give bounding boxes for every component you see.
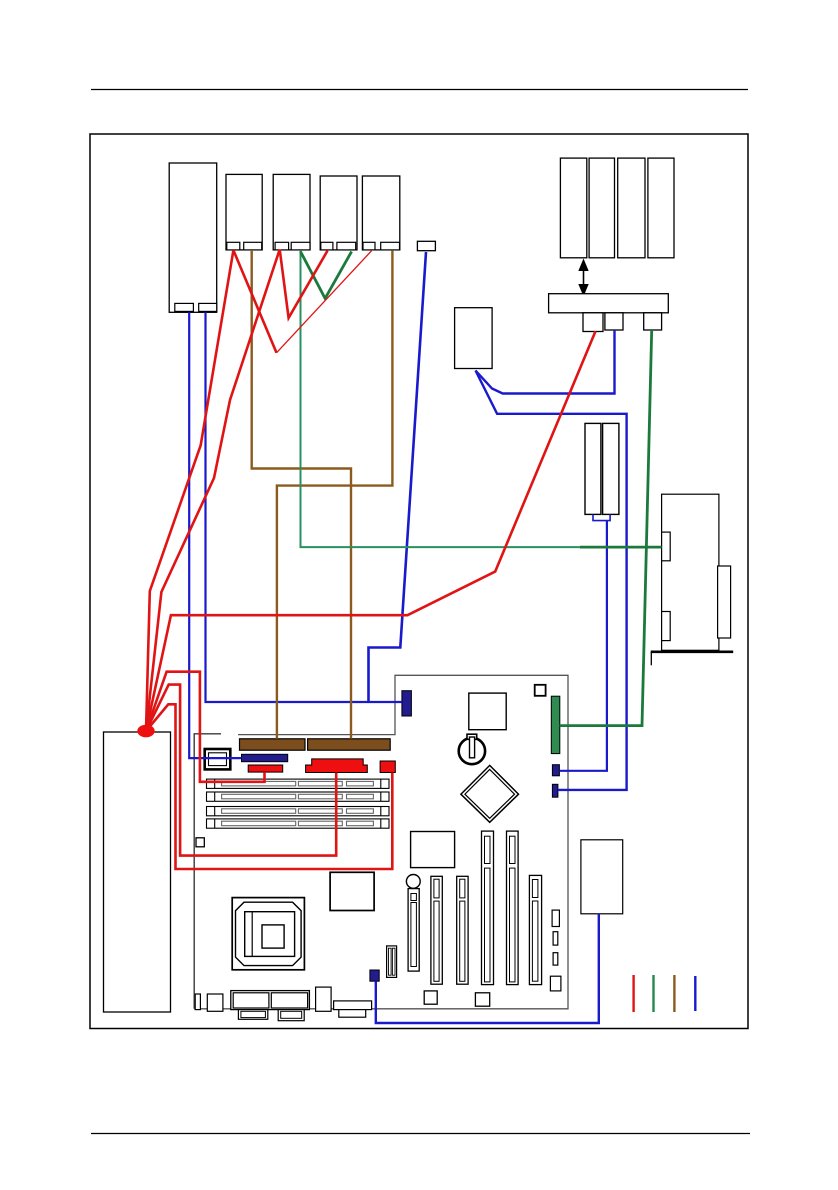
bottom rule	[91, 1133, 750, 1135]
PCI slot F	[529, 875, 541, 984]
wire brown 2	[277, 251, 393, 739]
wire blue B6	[476, 371, 627, 790]
double arrow	[583, 267, 585, 289]
wire blue B2	[206, 312, 402, 702]
bar connector 1	[583, 313, 603, 332]
wire blue B1	[189, 312, 241, 758]
wire red R3	[146, 249, 280, 731]
drive bay 3	[618, 158, 645, 258]
thin slot L	[585, 423, 601, 514]
small square top right of board	[535, 685, 546, 696]
PCI slot A	[408, 889, 419, 972]
small circle left of slots	[406, 875, 420, 889]
bar connector 3	[644, 313, 662, 330]
bar connector 2	[605, 313, 623, 330]
motherboard outline	[194, 734, 221, 1009]
wire red R7	[146, 685, 336, 856]
DIMM slot 1	[207, 779, 390, 788]
serial double box on board	[205, 749, 231, 769]
drive bay 2	[589, 158, 614, 258]
chipset square A	[330, 872, 374, 910]
thin slot R	[603, 423, 619, 514]
navy square bottom	[370, 970, 379, 981]
legend blue	[694, 976, 696, 1011]
drive box 4	[320, 176, 357, 250]
drive bay 4	[648, 158, 674, 258]
power supply unit box	[104, 732, 171, 1012]
wire blue B4	[560, 521, 607, 771]
bottom mounting squares	[424, 991, 437, 1004]
wire blue B5	[476, 330, 615, 394]
top rule	[91, 89, 748, 91]
CPU socket	[232, 898, 304, 970]
drive box 3	[273, 174, 310, 250]
side case box right	[662, 494, 719, 650]
legend brown	[673, 975, 675, 1012]
wire red R1	[146, 250, 233, 731]
wire dark green from bar connector 3	[560, 330, 652, 726]
back panel connector 2	[207, 994, 223, 1011]
blue bracket connector below thin slots	[593, 514, 610, 520]
navy power connector	[402, 691, 412, 716]
lower right white box	[581, 840, 623, 914]
back panel block	[231, 991, 310, 1010]
wire blue B3	[369, 252, 427, 702]
drive box 1 connector L	[175, 303, 194, 311]
navy connector 2 right	[552, 784, 558, 797]
navy connector 1 right	[552, 765, 559, 776]
small red connector	[248, 765, 283, 772]
DIMM slot 2	[207, 792, 390, 801]
wire red R2 thick arm	[233, 250, 276, 353]
drive box 1 (tall)	[169, 163, 217, 312]
big red power connector	[306, 759, 368, 773]
chipset square B	[411, 832, 455, 868]
right edge small rects	[552, 910, 559, 926]
legend green	[652, 975, 654, 1012]
back panel tiny connector	[195, 994, 200, 1010]
chip square top	[469, 693, 506, 730]
wire red R2 thin arm	[277, 251, 372, 353]
IDE connector 1 (brown)	[240, 739, 306, 750]
DIMM slot 4	[207, 819, 390, 828]
back panel wide flat	[334, 1001, 372, 1010]
wire red R8	[146, 704, 392, 869]
far small red connector	[380, 761, 395, 773]
drive box 2	[226, 174, 262, 250]
wire blue B7	[376, 914, 599, 1023]
wire red R6	[146, 672, 265, 782]
black base line under side box	[651, 650, 734, 653]
back panel tall rect	[316, 987, 332, 1011]
PCI slot E	[507, 831, 519, 985]
wire red R5	[146, 331, 596, 731]
fan circle symbol	[459, 738, 485, 764]
drive bay 1	[560, 158, 586, 258]
diamond chip	[461, 765, 519, 822]
floppy connector (navy)	[242, 754, 288, 761]
outer frame	[90, 134, 748, 1029]
CNR small slot	[387, 946, 397, 978]
horizontal bar (drive cage rail)	[549, 294, 669, 313]
front panel box	[455, 308, 493, 369]
DIMM slot 3	[207, 807, 390, 816]
small square on board left	[196, 838, 204, 847]
IDE connector 2 (brown)	[308, 739, 391, 750]
drive box 5	[362, 176, 399, 250]
red junction dot	[137, 725, 154, 738]
PCI slot C	[457, 876, 468, 984]
PCI slot B	[431, 876, 442, 984]
drive box 1 connector R	[199, 303, 217, 311]
standalone connector top	[417, 241, 435, 250]
AGP slot (green)	[551, 696, 560, 753]
PCI slot D	[482, 831, 494, 985]
wire dark green V	[301, 252, 352, 299]
wire brown 1	[252, 250, 351, 739]
wire sea green	[301, 251, 580, 547]
wire dark green horizontal to case	[580, 546, 662, 549]
wire red R4	[280, 249, 328, 318]
legend red	[632, 975, 634, 1012]
